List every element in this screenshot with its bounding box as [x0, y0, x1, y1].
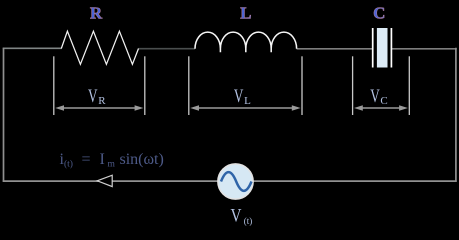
- svg-text:(t): (t): [64, 158, 73, 169]
- VR bracket left line: [53, 56, 55, 115]
- AC source sine wave: [221, 172, 252, 191]
- VC arrow: [354, 105, 408, 111]
- svg-text:V: V: [231, 206, 242, 227]
- svg-text:sin(ωt): sin(ωt): [120, 151, 164, 168]
- wire capacitor to top-right corner: [392, 48, 457, 50]
- svg-text:I: I: [100, 151, 105, 168]
- svg-text:L: L: [240, 3, 251, 22]
- wire bottom left segment: [3, 180, 218, 182]
- wire top-left segment: [3, 47, 62, 49]
- VL bracket left line: [188, 56, 190, 115]
- wire between inductor and capacitor: [297, 48, 372, 50]
- svg-text:L: L: [244, 95, 251, 107]
- current direction arrow: [97, 175, 112, 186]
- wire bottom right segment: [253, 180, 457, 182]
- svg-text:R: R: [98, 95, 106, 107]
- wire between resistor and inductor: [139, 48, 196, 50]
- AC source VS circle: [218, 164, 253, 199]
- svg-text:C: C: [373, 3, 385, 22]
- VC bracket right line: [408, 56, 410, 115]
- svg-text:V: V: [370, 86, 380, 107]
- svg-text:V: V: [88, 86, 98, 107]
- resistor R: [61, 31, 138, 64]
- svg-text:V: V: [234, 86, 244, 107]
- capacitor C right plate: [390, 28, 392, 68]
- capacitor C dielectric fill: [377, 28, 388, 68]
- inductor L: [195, 32, 297, 52]
- svg-text:C: C: [380, 95, 387, 107]
- capacitor C left plate: [372, 28, 374, 68]
- wire left side: [3, 48, 5, 182]
- VL bracket right line: [301, 56, 303, 115]
- svg-text:=: =: [82, 151, 91, 168]
- svg-text:R: R: [90, 3, 103, 22]
- current label i(t) = Im sin(wt): [60, 151, 164, 170]
- VL arrow: [190, 105, 300, 111]
- svg-text:(t): (t): [244, 216, 253, 226]
- VR arrow: [55, 105, 143, 111]
- VC bracket left line: [352, 56, 354, 115]
- svg-text:m: m: [108, 159, 116, 169]
- wire right side: [455, 48, 457, 182]
- VR bracket right line: [144, 56, 146, 115]
